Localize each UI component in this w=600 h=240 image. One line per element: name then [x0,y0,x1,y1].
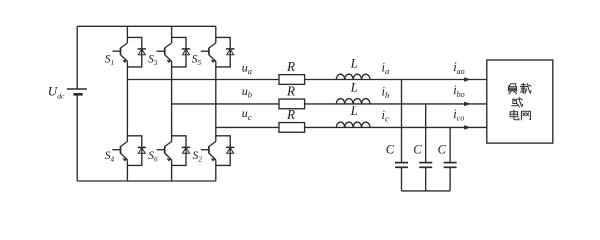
transistor S1 gate lead [112,50,120,52]
svg-text:S4: S4 [105,150,115,163]
transistor S5 base bar [208,48,210,55]
transistor S2 base bar [208,146,210,153]
resistor R phase a [279,75,305,85]
label u_c [242,106,252,122]
label L phase b [350,80,358,95]
transistor S1 base bar [120,48,122,55]
transistor S6 gate lead [157,149,165,151]
label S6 [148,150,158,163]
transistor S2 collector slant [209,142,216,147]
svg-text:R: R [286,84,295,99]
svg-text:S3: S3 [148,54,158,67]
wire leg2 collector from top rail [171,26,173,43]
transistor S6 collector slant [165,142,172,147]
transistor S5 emitter with arrow [209,55,216,63]
label i_bo [453,83,464,99]
transistor S6 base bar [164,146,166,153]
svg-text:ib: ib [382,84,390,100]
svg-text:S6: S6 [148,150,158,163]
label S5 [192,54,202,67]
wire leg2 emitter down to lower cell [171,61,173,141]
svg-text:L: L [350,80,358,95]
svg-text:C: C [386,142,395,156]
svg-text:uc: uc [242,106,252,122]
transistor S4 base bar [120,146,122,153]
svg-text:ub: ub [242,84,252,100]
text 网 [521,111,530,120]
wire phase b line [172,103,487,105]
wire leg1 emitter down to lower cell [126,61,128,141]
wire top diode loop leg2 [172,37,186,67]
wire leg2 emitter to bottom rail [171,160,173,181]
label U_dc [48,84,65,101]
transistor S3 collector slant [165,43,172,48]
label S3 [148,54,158,67]
diode antiparallel with S6 [182,147,190,153]
svg-text:ia: ia [382,60,390,76]
capacitor C1 plates [395,163,408,168]
transistor S2 gate lead [201,149,209,151]
label R phase a [286,59,295,74]
wire capacitor branch b lower [425,167,427,191]
svg-text:ua: ua [242,60,252,76]
wire leg1 collector from top rail [126,26,128,43]
transistor S4 emitter with arrow [121,153,128,161]
transistor S3 emitter with arrow [165,55,172,63]
wire capacitor branch c lower [449,167,451,191]
arrow current i_bo [464,102,470,107]
label i_b [382,84,390,100]
svg-text:ico: ico [453,107,464,123]
label i_ao [453,60,464,76]
label S1 [105,54,114,67]
wire top diode loop leg1 [127,37,141,67]
svg-text:R: R [286,59,295,74]
wire bottom diode loop leg1 [127,136,141,166]
arrow current i_ao [464,77,470,82]
wire capacitor branch b upper [425,104,427,163]
resistor R phase b [279,99,305,109]
label u_a [242,60,252,76]
wire leg1 emitter to bottom rail [126,160,128,181]
wire top diode loop leg3 [216,37,230,67]
svg-text:C: C [413,142,422,156]
label i_c [382,108,389,124]
inductor L phase b [336,99,370,104]
label C3 [438,142,447,156]
transistor S3 gate lead [157,50,165,52]
inductor L phase a [336,74,370,79]
svg-text:S2: S2 [193,150,203,163]
wire bottom diode loop leg2 [172,136,186,166]
wire phase c line [216,126,487,128]
label R phase b [286,84,295,99]
svg-text:ibo: ibo [453,83,464,99]
label C1 [386,142,395,156]
label i_a [382,60,390,76]
transistor S5 gate lead [201,50,209,52]
label L phase a [350,55,358,70]
diode antiparallel with S1 [138,49,146,55]
text 电 [510,110,519,120]
svg-text:C: C [438,142,447,156]
label R phase c [286,107,295,122]
diode antiparallel with S5 [226,49,234,55]
text 或 [512,97,523,107]
transistor S3 base bar [164,48,166,55]
text 负 [508,84,516,94]
svg-text:ic: ic [382,108,389,124]
DC source U_dc short plate [73,93,82,96]
wire leg3 emitter down to lower cell [215,61,217,141]
svg-text:L: L [350,103,358,118]
transistor S4 gate lead [112,149,120,151]
wire phase a line [127,79,486,81]
svg-text:Udc: Udc [48,84,65,101]
transistor S2 emitter with arrow [209,153,216,161]
svg-text:S5: S5 [192,54,202,67]
diode antiparallel with S2 [226,147,234,153]
capacitor C3 plates [444,163,457,168]
load box 负载或电网 outline [487,60,553,143]
DC source U_dc long plate [67,88,87,90]
wire leg3 collector from top rail [215,26,217,43]
diode antiparallel with S4 [138,147,146,153]
wire capacitor branch a upper [401,80,403,163]
label S2 [193,150,203,163]
inductor L phase c [336,122,370,127]
label L phase c [350,103,358,118]
transistor S5 collector slant [209,43,216,48]
label S4 [105,150,115,163]
capacitor C2 plates [419,163,432,168]
diode antiparallel with S3 [182,49,190,55]
wire top DC rail [77,25,216,27]
transistor S1 emitter with arrow [121,55,128,63]
svg-text:S1: S1 [105,54,114,67]
arrow current i_co [464,125,470,130]
wire left branch lower [76,94,78,181]
resistor R phase c [279,123,305,133]
svg-text:L: L [350,55,358,70]
label u_b [242,84,252,100]
label i_co [453,107,464,123]
svg-text:R: R [286,107,295,122]
wire capacitor branch a lower [401,167,403,191]
transistor S6 emitter with arrow [165,153,172,161]
wire leg3 emitter to bottom rail [215,160,217,181]
label C2 [413,142,422,156]
wire bottom diode loop leg3 [216,136,230,166]
transistor S4 collector slant [121,142,128,147]
wire bottom DC rail [77,180,216,182]
wire capacitor branch c upper [449,127,451,162]
text 载 [520,83,531,93]
wire capacitor neutral rail [402,190,451,192]
transistor S1 collector slant [121,43,128,48]
wire left branch upper [76,26,78,89]
svg-text:iao: iao [453,60,464,76]
